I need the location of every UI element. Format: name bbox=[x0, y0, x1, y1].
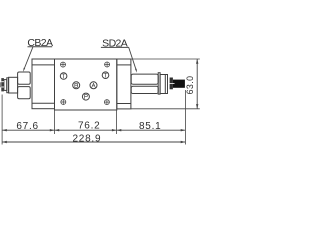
cartridge CB2A knob bbox=[1, 78, 4, 91]
svg-text:228.9: 228.9 bbox=[73, 134, 102, 145]
cartridge SD2A nut bbox=[160, 75, 167, 94]
arrow pair at plate left bbox=[50, 129, 55, 131]
cartridge SD2A washer bbox=[158, 73, 160, 94]
port T right bbox=[102, 72, 109, 79]
bolt hole bottom-left bbox=[61, 99, 67, 105]
extension line right end bbox=[184, 90, 186, 145]
label CB2A bbox=[27, 37, 53, 49]
svg-text:63.0: 63.0 bbox=[185, 76, 195, 95]
bolt hole bottom-right bbox=[104, 99, 110, 105]
extension line left end bbox=[1, 95, 3, 145]
letter P bbox=[85, 95, 88, 99]
leader SD2A bbox=[129, 47, 137, 72]
port letters bbox=[62, 73, 107, 98]
letter B bbox=[75, 83, 78, 87]
cartridge CB2A stub bbox=[0, 82, 1, 87]
svg-text:CB2A: CB2A bbox=[27, 37, 53, 49]
arrow left end bbox=[2, 129, 7, 131]
svg-text:76.2: 76.2 bbox=[78, 121, 100, 132]
dimension line row 2 (total) bbox=[2, 141, 185, 143]
leader CB2A bbox=[23, 47, 33, 72]
extension line plate left bbox=[54, 110, 56, 134]
cartridge CB2A cap bbox=[4, 80, 7, 91]
letter A bbox=[92, 83, 95, 87]
right cavity block bbox=[117, 59, 131, 109]
height dimension 63.0 bbox=[117, 59, 200, 109]
cartridge CB2A body bbox=[9, 77, 18, 93]
extension line plate right bbox=[116, 110, 118, 134]
cartridge CB2A washer bbox=[7, 78, 9, 93]
valve body plate bbox=[55, 59, 117, 110]
svg-text:67.6: 67.6 bbox=[16, 121, 38, 132]
label SD2A bbox=[101, 38, 129, 50]
bolt hole top-right bbox=[104, 62, 110, 68]
letter T left bbox=[62, 74, 65, 78]
letter T right bbox=[104, 73, 107, 77]
extension line top bbox=[117, 58, 200, 60]
dimension line vertical bbox=[196, 59, 198, 109]
cartridge SD2A knob bbox=[170, 78, 185, 90]
svg-text:85.1: 85.1 bbox=[139, 121, 161, 132]
dimension line row 1 bbox=[2, 129, 185, 131]
left cavity block bbox=[32, 59, 55, 109]
bolt hole top-left bbox=[60, 62, 66, 68]
arrow pair at plate right bbox=[112, 129, 117, 131]
cartridge CB2A hex bbox=[18, 72, 31, 99]
cartridge SD2A hex bbox=[131, 74, 158, 93]
port T left bbox=[60, 73, 67, 80]
port A bbox=[90, 82, 97, 89]
arrow right end bbox=[181, 129, 186, 131]
extension line bottom bbox=[131, 108, 200, 110]
port P bbox=[82, 93, 89, 100]
port B bbox=[73, 82, 80, 89]
dimension extension lines bbox=[2, 90, 185, 145]
